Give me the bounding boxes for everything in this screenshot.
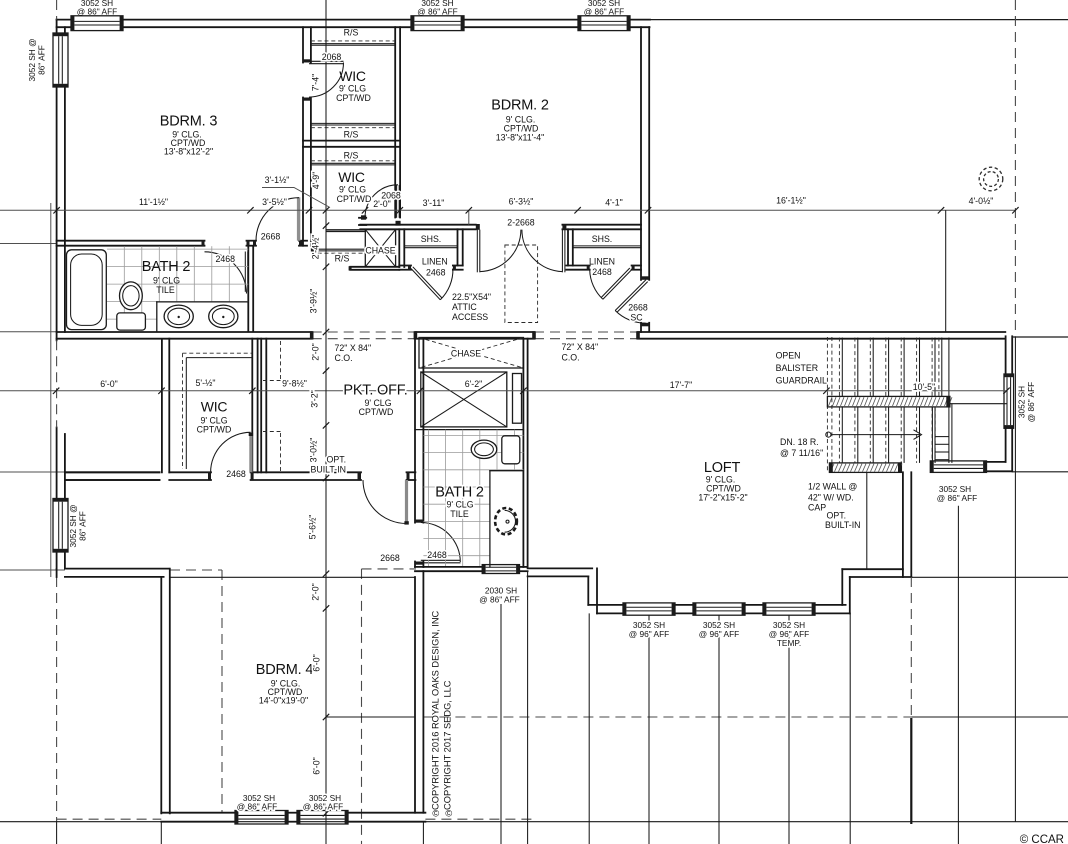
svg-text:COPYRIGHT 2016 ROYAL OAKS DESI: COPYRIGHT 2016 ROYAL OAKS DESIGN, INC	[431, 610, 441, 810]
svg-text:OPT.: OPT.	[827, 511, 847, 521]
narrow chase side box	[513, 374, 522, 424]
svg-text:BUILT-IN: BUILT-IN	[825, 520, 861, 530]
svg-text:4'-9": 4'-9"	[311, 172, 321, 190]
door 2-2668 right leaf	[561, 230, 563, 273]
shelf line linen1	[404, 245, 457, 247]
svg-text:22.5"X54": 22.5"X54"	[452, 292, 491, 302]
svg-text:2-2668: 2-2668	[507, 218, 534, 228]
shelf line linen2	[573, 245, 641, 247]
svg-text:CPT/WD: CPT/WD	[336, 93, 371, 103]
ceiling symbol dashed circles	[979, 167, 1003, 191]
svg-text:16'-1½": 16'-1½"	[776, 196, 806, 206]
wall bath2-lower east	[522, 339, 524, 567]
door 2468 (bath2 lower) leaf	[421, 559, 461, 561]
wall PKT OFF west	[260, 339, 262, 473]
door 2468 (linen2) leaf	[603, 270, 632, 300]
svg-text:72" X 84": 72" X 84"	[562, 342, 599, 352]
svg-text:BDRM. 3: BDRM. 3	[160, 114, 218, 130]
svg-text:2'-0": 2'-0"	[373, 199, 391, 209]
svg-text:4'-0½": 4'-0½"	[969, 196, 994, 206]
chase box with dashed X (hall south)	[419, 338, 523, 369]
wall below chase row	[350, 266, 399, 268]
svg-text:6'-0": 6'-0"	[312, 757, 322, 775]
dashed line x=1015 (roof edge right)	[1014, 0, 1016, 337]
door 2068 (WIC2) leaf	[396, 185, 398, 218]
svg-text:3'-11": 3'-11"	[423, 198, 445, 208]
svg-text:WIC: WIC	[339, 68, 366, 84]
vanity (bath2 lower)	[490, 470, 524, 472]
door 2468 (WIC lower) swing arc	[211, 432, 251, 472]
svg-text:2468: 2468	[226, 469, 246, 479]
svg-text:R/S: R/S	[344, 130, 359, 140]
exterior wall left	[56, 20, 58, 34]
wall east below window	[1005, 428, 1007, 462]
dashed built-in outline (PKT OFF)	[280, 341, 282, 379]
svg-text:LINEN: LINEN	[422, 257, 448, 267]
svg-text:6'-3½": 6'-3½"	[509, 197, 534, 207]
svg-text:BATH 2: BATH 2	[142, 259, 191, 275]
wall WIC-lower west	[161, 340, 163, 472]
wall BDRM4 east	[414, 577, 416, 813]
door 2068 (WIC upper) leaf	[309, 60, 344, 62]
svg-text:7'-4": 7'-4"	[310, 74, 320, 92]
wall step down (x~592)	[587, 576, 589, 605]
svg-text:@ 86" AFF: @ 86" AFF	[417, 6, 457, 16]
door 2468 (BATH2 upper) swing arc	[205, 252, 247, 294]
dashed floor-below y=717	[326, 716, 415, 718]
svg-text:3'-0½": 3'-0½"	[309, 438, 319, 463]
door 2468 (linen1) swing arc	[440, 269, 453, 300]
wall BDRM4 south with windows	[161, 812, 235, 814]
wall row BDRM4 nook bottom	[65, 568, 169, 570]
wall linen2 west	[567, 229, 569, 265]
svg-text:SC: SC	[630, 313, 643, 323]
hall closet row top wall	[360, 224, 476, 226]
svg-text:13'-8"x12'-2": 13'-8"x12'-2"	[164, 147, 213, 157]
door 2468 (BATH2 upper) leaf	[244, 252, 246, 292]
wall WIC east (BDRM2 west wall)	[394, 27, 396, 217]
dimension extension x=945.7	[945, 210, 947, 331]
roof edge line right of east wall	[1012, 336, 1068, 338]
window 3052 SH (top wall over BDRM3)	[71, 16, 123, 31]
loft south wall west segment	[528, 567, 593, 569]
chase C2 box (6'-2)	[421, 372, 507, 427]
opt built-in boundary line	[866, 472, 868, 569]
stair guardrail dashed (open balister)	[826, 337, 828, 472]
door 2-2668 left leaf	[476, 230, 478, 273]
door 2668 (BDRM3) swing arc	[256, 198, 299, 241]
svg-text:9' CLG: 9' CLG	[339, 185, 366, 195]
window 3052 SH (loft south 1)	[623, 603, 675, 615]
svg-text:©: ©	[432, 809, 439, 819]
attic access hatch dashed outline	[505, 245, 538, 323]
wall step up (x~846)	[841, 569, 843, 605]
vanity (bath2 upper)	[157, 301, 249, 303]
dashed floor-below BDRM4 nook	[170, 569, 222, 571]
wall stair south (x~903-911)	[902, 472, 904, 577]
closet shelf outline (WIC lower) solid+dashed	[183, 352, 253, 354]
door 2468 (linen1) leaf	[411, 269, 440, 300]
bathtub	[67, 250, 107, 330]
wall row WIC-lower/PKT south	[65, 471, 160, 473]
svg-text:@ 86" AFF: @ 86" AFF	[937, 493, 977, 503]
svg-text:R/S: R/S	[344, 151, 359, 161]
svg-text:R/S: R/S	[335, 254, 350, 264]
svg-text:ATTIC: ATTIC	[452, 302, 477, 312]
door 2468 (bath2 lower) swing arc	[421, 523, 461, 563]
svg-text:6'-0": 6'-0"	[312, 654, 322, 672]
window label leader lines	[500, 604, 502, 844]
wall between WIC1 and WIC2	[303, 140, 400, 142]
svg-text:BDRM. 4: BDRM. 4	[256, 662, 314, 678]
cased opening 72x84 C.O. (west) dashed	[312, 331, 416, 333]
stair treads lower run	[839, 407, 935, 463]
shelf R/S (WIC2 top)	[311, 162, 395, 164]
svg-text:17'-7": 17'-7"	[670, 380, 692, 390]
svg-text:2668: 2668	[261, 232, 281, 242]
window 3052 SH (BDRM4 south 1)	[235, 811, 288, 825]
svg-text:CPT/WD: CPT/WD	[197, 425, 232, 435]
svg-text:4'-1": 4'-1"	[605, 197, 623, 207]
bath2-lower north wall	[415, 429, 523, 431]
svg-text:@ 86" AFF: @ 86" AFF	[77, 6, 117, 16]
loft south wall east segment	[842, 568, 903, 570]
svg-text:2468: 2468	[427, 550, 447, 560]
svg-text:C.O.: C.O.	[335, 353, 353, 363]
wall WIC2 south with door opening	[359, 217, 366, 219]
svg-text:BATH 2: BATH 2	[435, 485, 484, 501]
svg-text:2'-4½": 2'-4½"	[311, 235, 321, 260]
svg-text:CPT/WD: CPT/WD	[359, 407, 394, 417]
window 3052 SH (left wall BDRM4 nook)	[53, 499, 68, 553]
cased opening 72x84 C.O. (east) dashed	[534, 331, 638, 333]
door 2-2668 right swing arc	[522, 230, 563, 272]
svg-text:5'-½": 5'-½"	[196, 378, 216, 388]
svg-text:6'-2": 6'-2"	[465, 379, 483, 389]
floor edge line behind stair	[950, 403, 1008, 405]
window 3052 SH (left wall BDRM3)	[53, 33, 68, 87]
svg-text:@ 7 11/16": @ 7 11/16"	[780, 448, 823, 458]
window 3052 SH (loft south 3 tempered)	[763, 603, 815, 615]
svg-text:3'-5½": 3'-5½"	[262, 197, 287, 207]
svg-text:PKT. OFF.: PKT. OFF.	[343, 383, 407, 399]
door 2668 SC leaf	[615, 280, 646, 311]
svg-text:2468: 2468	[426, 268, 446, 278]
svg-text:WIC: WIC	[201, 399, 228, 415]
svg-text:9' CLG: 9' CLG	[339, 84, 366, 94]
svg-text:TEMP.: TEMP.	[777, 638, 801, 648]
svg-text:86" AFF: 86" AFF	[37, 45, 47, 75]
wall east (loft)	[1005, 336, 1007, 374]
svg-text:@ 86" AFF: @ 86" AFF	[237, 802, 277, 812]
wall WIC-lower east	[251, 339, 253, 473]
svg-text:LINEN: LINEN	[589, 257, 615, 267]
svg-text:CAP: CAP	[808, 503, 826, 513]
dashed y=819 segments	[57, 818, 162, 820]
svg-text:BDRM. 2: BDRM. 2	[491, 98, 549, 114]
svg-text:CPT/WD: CPT/WD	[337, 194, 372, 204]
stair south wall row with window	[987, 461, 1006, 463]
svg-text:2468: 2468	[592, 267, 612, 277]
dashed stub above top-left corner	[56, 0, 58, 20]
dimension line top (y=210.3)	[0, 209, 1015, 211]
door 2-2668 left swing arc	[480, 230, 521, 272]
window 2030 SH (bath2 lower south)	[415, 566, 483, 568]
wall linen1 east	[457, 229, 459, 265]
svg-text:@ 86" AFF: @ 86" AFF	[584, 6, 624, 16]
toilet (bath2 upper)	[119, 282, 142, 310]
svg-text:OPEN: OPEN	[776, 351, 801, 361]
door 2468 (linen2) swing arc	[590, 270, 603, 300]
svg-text:3052 SH @: 3052 SH @	[68, 504, 78, 547]
svg-text:@ 86" AFF: @ 86" AFF	[479, 595, 519, 605]
wall bath2-lower west / BDRM4 east	[414, 339, 416, 523]
stair east landing boundary	[931, 407, 933, 463]
stair landing treads (east)	[935, 436, 949, 438]
svg-text:TILE: TILE	[450, 509, 469, 519]
wall linen2 south with door opening	[566, 265, 589, 267]
svg-text:R/S: R/S	[344, 28, 359, 38]
tile grid bath2 lower	[423, 430, 523, 567]
wall linen1 south with door opening	[399, 265, 411, 267]
vertical dimension chain x=326	[325, 0, 327, 844]
svg-text:10'-5": 10'-5"	[913, 382, 935, 392]
roof edge line top-right (open to below)	[650, 19, 1068, 21]
svg-text:BUILT-IN: BUILT-IN	[311, 465, 347, 475]
svg-text:2668: 2668	[380, 553, 400, 563]
svg-text:WIC: WIC	[338, 169, 365, 185]
shelf R/S (niche)	[311, 248, 365, 250]
left wall stub y569-577	[56, 569, 58, 577]
svg-text:CHASE: CHASE	[451, 349, 481, 359]
sink (bath2 lower)	[495, 508, 517, 534]
svg-text:5'-6½": 5'-6½"	[308, 515, 318, 540]
wall below stair x=911	[910, 577, 912, 721]
svg-text:17'-2"x15'-2": 17'-2"x15'-2"	[698, 493, 747, 503]
shelf R/S (WIC1 top)	[311, 43, 395, 45]
window 3052 SH (top wall over BDRM2)	[578, 16, 630, 31]
svg-text:@ 86" AFF: @ 86" AFF	[303, 802, 343, 812]
extension line x=468.8	[468, 210, 470, 224]
svg-text:CHASE: CHASE	[365, 246, 395, 256]
svg-text:TILE: TILE	[156, 285, 175, 295]
svg-text:© CCAR: © CCAR	[1020, 834, 1064, 844]
svg-text:2468: 2468	[216, 254, 236, 264]
door 2668 SC swing arc	[615, 311, 646, 324]
door 2668 (BDRM4) swing arc	[363, 480, 407, 524]
thin floor line y=577	[170, 576, 415, 578]
wall BDRM4 west	[160, 577, 162, 813]
window 3052 SH (east wall)	[1004, 374, 1014, 428]
niche top wall	[326, 229, 365, 231]
svg-text:2'-0": 2'-0"	[311, 583, 321, 601]
door 2068 (WIC2) swing arc	[365, 185, 398, 218]
wall bath2-upper east	[247, 246, 249, 332]
tile grid bath2 upper	[107, 246, 248, 330]
door 2-2668 jambs	[476, 224, 480, 230]
svg-text:3052 SH: 3052 SH	[1017, 386, 1027, 418]
svg-text:1/2 WALL @: 1/2 WALL @	[808, 482, 857, 492]
svg-text:9'-8½": 9'-8½"	[282, 379, 307, 389]
dashed roof line left (x=56.6)	[56, 340, 58, 427]
wall extension lines to bottom edge	[56, 822, 58, 844]
svg-text:14'-0"x19'-0": 14'-0"x19'-0"	[259, 696, 308, 706]
svg-text:COPYRIGHT 2017 SEDG, LLC: COPYRIGHT 2017 SEDG, LLC	[443, 680, 453, 810]
svg-text:9' CLG: 9' CLG	[446, 500, 473, 510]
svg-text:13'-8"x11'-4": 13'-8"x11'-4"	[496, 133, 545, 143]
window 3052 SH (top wall over WIC)	[411, 16, 464, 31]
wall between BDRM3 and BATH2	[57, 240, 205, 242]
sink 2 (bath2 upper)	[209, 305, 238, 328]
svg-text:DN. 18 R.: DN. 18 R.	[780, 437, 819, 447]
svg-text:2'-0": 2'-0"	[311, 343, 321, 361]
dimension line mid (y=390.8)	[0, 390, 1007, 392]
door 2668 (BDRM4) leaf	[405, 480, 408, 524]
toilet (bath2 lower)	[502, 436, 520, 464]
svg-text:11'-1½": 11'-1½"	[139, 197, 168, 207]
svg-text:3'-9½": 3'-9½"	[309, 289, 319, 314]
wall linen1 west	[398, 229, 400, 267]
svg-text:C.O.: C.O.	[562, 353, 580, 363]
svg-text:@ 86" AFF: @ 86" AFF	[1026, 382, 1036, 422]
stair down arrow	[826, 432, 831, 437]
first floor outline y=821.7	[0, 821, 1068, 823]
svg-text:SHS.: SHS.	[592, 234, 613, 244]
wall WIC west (BDRM3 east wall)	[302, 27, 304, 62]
door 2468 (WIC lower) leaf	[249, 435, 252, 472]
svg-text:86" AFF: 86" AFF	[78, 511, 88, 541]
sink 1 (bath2 upper)	[164, 305, 193, 328]
left margin extension lines	[0, 243, 57, 245]
svg-text:OPT.: OPT.	[327, 455, 347, 465]
svg-text:@ 96" AFF: @ 96" AFF	[629, 629, 669, 639]
stair bottom half wall (hatched)	[829, 463, 902, 473]
svg-text:©: ©	[445, 809, 452, 819]
shelf R/S (WIC1 bottom)	[311, 122, 395, 124]
window 3052 SH (BDRM4 south 2)	[297, 811, 348, 825]
stair half wall between runs (hatched)	[827, 396, 952, 407]
svg-text:2068: 2068	[322, 52, 342, 62]
svg-text:ACCESS: ACCESS	[452, 312, 488, 322]
svg-text:3'-2": 3'-2"	[310, 390, 320, 408]
door 2668 (BDRM3) leaf	[297, 197, 300, 240]
dashed floor-below x=363	[362, 568, 417, 570]
svg-text:3052 SH @: 3052 SH @	[27, 38, 37, 81]
svg-text:@ 96" AFF: @ 96" AFF	[699, 629, 739, 639]
svg-text:9' CLG: 9' CLG	[153, 276, 180, 286]
stair upper run east boundary	[941, 338, 943, 397]
stair treads upper run	[839, 338, 935, 397]
wall row BDRM4 nook top	[65, 471, 160, 473]
exterior wall top (BDRM3/WIC/BDRM2)	[57, 19, 71, 21]
mid wall row (bath2 south / hallway south / loft north)	[57, 331, 312, 333]
svg-text:6'-0": 6'-0"	[100, 379, 118, 389]
svg-text:42" W/ WD.: 42" W/ WD.	[808, 493, 854, 503]
svg-text:3'-1½": 3'-1½"	[265, 175, 290, 185]
svg-text:2668: 2668	[628, 303, 648, 313]
svg-text:GUARDRAIL: GUARDRAIL	[776, 376, 827, 386]
svg-text:BALISTER: BALISTER	[776, 363, 819, 373]
svg-text:SHS.: SHS.	[421, 234, 442, 244]
window 3052 SH (loft south 2)	[693, 603, 745, 615]
window 3052 SH (stair south)	[930, 461, 986, 473]
svg-text:72" X 84": 72" X 84"	[335, 343, 372, 353]
wall hall east / loft west	[640, 27, 642, 280]
chase C1 box (hall)	[365, 230, 395, 267]
door 2068 (WIC upper) swing arc	[309, 63, 344, 98]
loft south wall with windows	[588, 604, 623, 606]
